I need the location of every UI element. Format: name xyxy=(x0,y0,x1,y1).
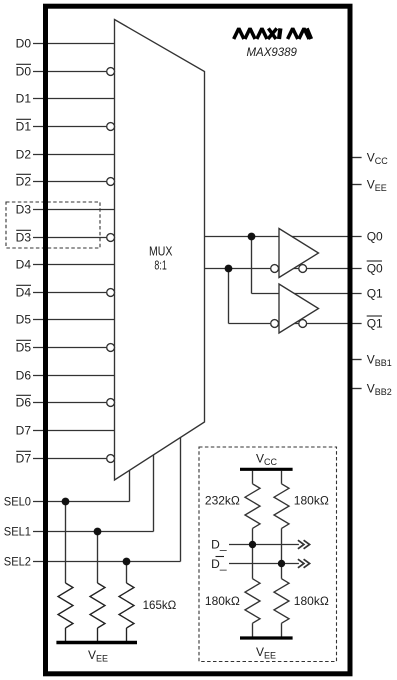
svg-text:D4: D4 xyxy=(16,286,32,300)
svg-text:D_: D_ xyxy=(211,538,227,552)
svg-text:Q1: Q1 xyxy=(367,287,383,301)
svg-text:Q1: Q1 xyxy=(367,317,383,331)
svg-text:180kΩ: 180kΩ xyxy=(294,494,329,508)
svg-text:D7: D7 xyxy=(16,452,32,466)
svg-text:MAX9389: MAX9389 xyxy=(247,45,298,59)
svg-text:Q0: Q0 xyxy=(367,262,383,276)
svg-text:8:1: 8:1 xyxy=(154,259,166,273)
svg-text:D2: D2 xyxy=(16,148,32,162)
svg-text:D0: D0 xyxy=(16,65,32,79)
svg-text:D1: D1 xyxy=(16,92,32,106)
svg-text:D0: D0 xyxy=(16,37,32,51)
svg-text:232kΩ: 232kΩ xyxy=(205,494,240,508)
svg-text:180kΩ: 180kΩ xyxy=(294,594,329,608)
svg-text:D3: D3 xyxy=(16,203,32,217)
svg-text:SEL0: SEL0 xyxy=(4,495,31,509)
svg-text:D6: D6 xyxy=(16,369,32,383)
svg-text:D5: D5 xyxy=(16,341,32,355)
svg-text:165kΩ: 165kΩ xyxy=(143,598,177,612)
svg-text:D5: D5 xyxy=(16,313,32,327)
svg-text:SEL1: SEL1 xyxy=(4,525,31,539)
svg-text:D2: D2 xyxy=(16,175,32,189)
svg-text:SEL2: SEL2 xyxy=(4,555,31,569)
svg-text:Q0: Q0 xyxy=(367,230,383,244)
svg-text:180kΩ: 180kΩ xyxy=(205,594,240,608)
svg-text:D6: D6 xyxy=(16,396,32,410)
svg-text:D4: D4 xyxy=(16,258,32,272)
svg-text:MUX: MUX xyxy=(149,244,173,258)
svg-text:D3: D3 xyxy=(16,231,32,245)
svg-text:D1: D1 xyxy=(16,120,32,134)
svg-text:D_: D_ xyxy=(211,557,227,571)
svg-text:D7: D7 xyxy=(16,424,32,438)
